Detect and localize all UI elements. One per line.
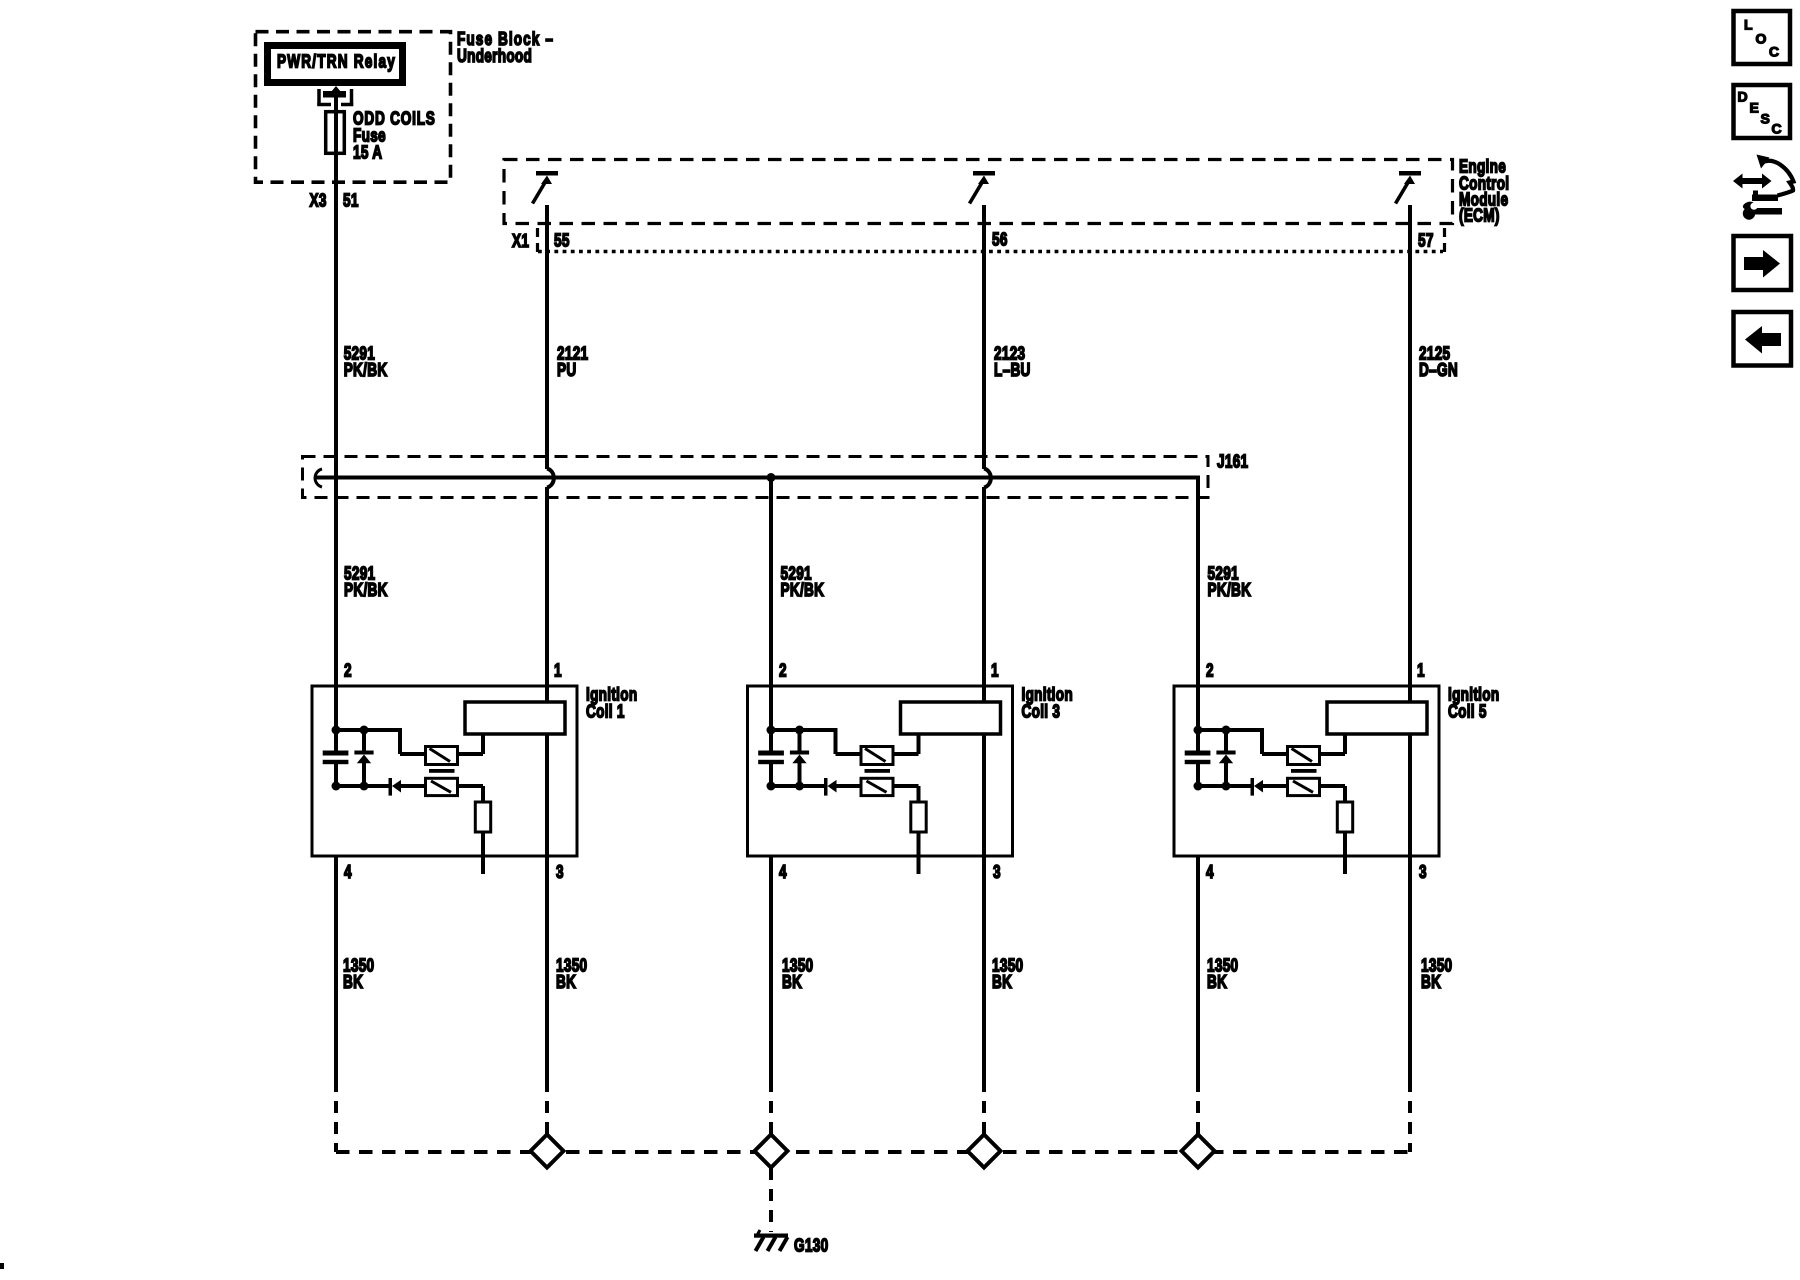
svg-text:L: L bbox=[1744, 17, 1753, 33]
coil 1 wire driver top to coil block bbox=[458, 752, 484, 756]
coil 5 junction dots bottom bbox=[1194, 782, 1203, 791]
svg-text:PK/BK: PK/BK bbox=[1208, 580, 1252, 601]
splice bus end hook bbox=[315, 469, 322, 487]
driver module middle bar coil 3 bbox=[865, 769, 891, 773]
connector X1 tick right bbox=[1443, 228, 1446, 252]
dashed wire coil1 pin4 to bus bbox=[334, 1080, 338, 1152]
wire 2123 L-BU hop to coil3 bbox=[982, 487, 986, 688]
forward arrow bbox=[1744, 250, 1780, 278]
wire 2121 PU hop to coil1 bbox=[545, 487, 549, 688]
svg-text:15 A: 15 A bbox=[353, 142, 382, 163]
icon box forward arrow bbox=[1734, 236, 1792, 290]
svg-text:1: 1 bbox=[554, 660, 562, 681]
svg-text:J161: J161 bbox=[1217, 451, 1248, 472]
dashed wire coil3 pin3 to splice bbox=[982, 1080, 986, 1137]
coil 1 secondary stub wire bbox=[481, 832, 485, 874]
svg-text:X1: X1 bbox=[512, 231, 529, 252]
svg-text:BK: BK bbox=[992, 972, 1012, 993]
coil 3 wire diode to driver bbox=[837, 784, 863, 788]
svg-text:X3: X3 bbox=[310, 190, 327, 211]
connector X1 dotted line bbox=[538, 250, 1443, 253]
wire 2123 L-BU pin56 to hop bbox=[982, 205, 986, 469]
coil 3 bend wire down to driver bbox=[834, 728, 838, 754]
ignition coil 5 box bbox=[1174, 686, 1439, 856]
wire 1350 BK coil1 pin3 solid bbox=[545, 856, 549, 1080]
zener diode coil 3 bbox=[790, 730, 809, 788]
svg-text:57: 57 bbox=[1418, 230, 1434, 251]
coil 5 bottom internal wire bbox=[1198, 784, 1252, 788]
coil 5 wire diode to driver bbox=[1263, 784, 1289, 788]
svg-text:2: 2 bbox=[1206, 660, 1214, 681]
pin labels 2 1 4 3 coil 1 bbox=[344, 660, 564, 882]
label ODD COILS Fuse 15 A bbox=[353, 108, 436, 163]
svg-text:PK/BK: PK/BK bbox=[344, 360, 388, 381]
svg-text:E: E bbox=[1750, 100, 1759, 116]
connector label X3 51 bbox=[310, 190, 359, 211]
wire J161 corner down to coil5 branch bbox=[1196, 478, 1200, 689]
wire 5291 PK/BK J161 to coil3 bbox=[769, 479, 773, 688]
splice diamond 1 bbox=[531, 1135, 564, 1168]
connector X1 tick left bbox=[536, 228, 539, 252]
dashed wire coil1 pin3 to splice bbox=[545, 1080, 549, 1137]
coil 3 top internal wire bbox=[771, 728, 838, 732]
svg-text:PK/BK: PK/BK bbox=[344, 580, 388, 601]
coil 1 wire diode to driver bbox=[401, 784, 427, 788]
svg-text:1: 1 bbox=[991, 660, 999, 681]
labels X1 55 56 57 bbox=[512, 229, 1434, 251]
fuse ODD COILS 15A bbox=[326, 112, 345, 154]
svg-text:56: 56 bbox=[992, 229, 1008, 250]
driver module top box coil 5 bbox=[1288, 747, 1320, 765]
svg-text:C: C bbox=[1769, 44, 1779, 60]
svg-text:4: 4 bbox=[779, 862, 787, 883]
pin labels 2 1 4 3 coil 5 bbox=[1206, 660, 1427, 882]
label 2123 L-BU bbox=[994, 343, 1031, 380]
wire 1350 BK coil5 pin4 solid bbox=[1196, 856, 1200, 1080]
resistor coil 5 bbox=[1337, 802, 1352, 832]
wire 1350 BK coil3 pin3 solid bbox=[982, 856, 986, 1080]
label Engine Control Module (ECM) bbox=[1459, 156, 1509, 226]
wire 2125 D-GN pin57 to coil5 bbox=[1408, 205, 1412, 688]
svg-text:Coil 3: Coil 3 bbox=[1022, 701, 1061, 722]
label Ignition Coil 3 bbox=[1022, 684, 1073, 722]
coil 5 pin1/pin3 wire below block bbox=[1408, 734, 1412, 856]
zener diode coil 5 bbox=[1216, 730, 1235, 788]
ECM output driver pin 55 bbox=[533, 171, 559, 204]
dashed wire splice to ground bbox=[769, 1168, 773, 1232]
wire 5291 PK/BK J161 to coil1 bbox=[334, 479, 338, 688]
dashed wire coil5 pin3 to bus bbox=[1408, 1080, 1412, 1152]
icon box LOC bbox=[1734, 11, 1791, 64]
wire 1350 BK coil3 pin4 solid bbox=[769, 856, 773, 1080]
ECM dashed box bbox=[504, 160, 1453, 224]
svg-text:BK: BK bbox=[556, 972, 576, 993]
labels 5291 PK/BK middle bbox=[344, 563, 1251, 600]
svg-text:O: O bbox=[1756, 30, 1767, 46]
driver module middle bar coil 5 bbox=[1291, 769, 1317, 773]
pin labels 2 1 4 3 coil 3 bbox=[779, 660, 1001, 882]
ECM output driver pin 57 bbox=[1396, 171, 1422, 204]
ECM output driver pin 56 bbox=[970, 171, 996, 204]
svg-text:BK: BK bbox=[782, 972, 802, 993]
svg-text:3: 3 bbox=[993, 862, 1001, 883]
coil 1 pin1 wire into box bbox=[545, 686, 549, 704]
wire hop over J161 bus at 55 bbox=[547, 469, 554, 488]
svg-text:1: 1 bbox=[1417, 660, 1425, 681]
coil 5 wire driver top to coil block bbox=[1320, 752, 1346, 756]
coil 5 primary block bbox=[1327, 702, 1427, 734]
coil 5 junction dots top bbox=[1194, 726, 1203, 735]
ignition coil 1 box bbox=[312, 686, 577, 856]
svg-text:BK: BK bbox=[1421, 972, 1441, 993]
splice diamond 3 bbox=[968, 1135, 1001, 1168]
labels 1350 BK bbox=[343, 955, 1452, 992]
wire fuse interior bbox=[334, 113, 338, 152]
label Fuse Block - Underhood bbox=[457, 29, 554, 67]
coil 3 bottom internal wire bbox=[771, 784, 826, 788]
dashed wire coil3 pin4 to splice bbox=[769, 1080, 773, 1137]
label 5291 PK/BK top bbox=[344, 343, 388, 380]
label Ignition Coil 5 bbox=[1448, 684, 1499, 722]
svg-text:4: 4 bbox=[344, 862, 352, 883]
letters DESC bbox=[1738, 89, 1782, 137]
coil 3 primary block bbox=[901, 702, 1001, 734]
coil 3 wire driver bottom to resistor bbox=[893, 784, 919, 788]
wire hop over J161 bus at 56 bbox=[984, 469, 991, 488]
svg-text:55: 55 bbox=[554, 230, 570, 251]
splice diamond 4 bbox=[1182, 1135, 1215, 1168]
svg-text:3: 3 bbox=[556, 862, 564, 883]
coil 1 bottom internal wire bbox=[336, 784, 390, 788]
diode coil 1 bbox=[389, 778, 402, 796]
icon vehicle with arrow and wrench bbox=[1733, 155, 1794, 220]
coil 1 junction dots top bbox=[332, 726, 341, 735]
coil 1 junction dots bottom bbox=[332, 782, 341, 791]
wire 2121 PU pin55 to hop bbox=[545, 205, 549, 469]
driver module middle bar coil 1 bbox=[429, 769, 455, 773]
coil 1 pin1/pin3 wire below block bbox=[545, 734, 549, 856]
resistor coil 3 bbox=[911, 802, 926, 832]
label 2125 D-GN bbox=[1419, 343, 1458, 380]
svg-text:4: 4 bbox=[1206, 862, 1214, 883]
svg-text:3: 3 bbox=[1419, 862, 1427, 883]
svg-text:(ECM): (ECM) bbox=[1459, 205, 1500, 226]
splice bus wire J161 bbox=[316, 476, 1200, 480]
driver module bottom box coil 3 bbox=[861, 778, 893, 795]
driver module top box coil 3 bbox=[861, 747, 893, 765]
svg-text:PK/BK: PK/BK bbox=[781, 580, 825, 601]
ignition coil 3 box bbox=[748, 686, 1013, 856]
coil 1 bend wire down to driver bbox=[398, 728, 402, 754]
diode coil 5 bbox=[1251, 778, 1264, 796]
svg-text:51: 51 bbox=[343, 190, 359, 211]
ground G130 bbox=[754, 1230, 788, 1251]
coil 5 wire driver bottom to resistor bbox=[1320, 784, 1346, 788]
wire 1350 BK coil1 pin4 solid bbox=[334, 856, 338, 1080]
svg-text:D–GN: D–GN bbox=[1419, 360, 1458, 381]
coil 5 secondary stub wire bbox=[1343, 832, 1347, 874]
svg-text:2: 2 bbox=[344, 660, 352, 681]
capacitor coil 3 bbox=[758, 732, 784, 785]
icon box DESC bbox=[1734, 85, 1791, 138]
coil 1 top internal wire bbox=[336, 728, 402, 732]
svg-text:D: D bbox=[1738, 89, 1748, 105]
coil 3 pin2 wire into box bbox=[769, 686, 773, 732]
diode coil 3 bbox=[824, 778, 837, 796]
svg-text:L–BU: L–BU bbox=[994, 360, 1031, 381]
zener diode coil 1 bbox=[354, 730, 373, 788]
svg-text:Coil 5: Coil 5 bbox=[1448, 701, 1487, 722]
dashed wire coil5 pin4 to splice bbox=[1196, 1080, 1200, 1137]
relay PWR/TRN Relay label box bbox=[268, 46, 403, 83]
driver module bottom box coil 1 bbox=[426, 778, 458, 795]
coil 1 primary block bbox=[465, 702, 565, 734]
coil 5 top internal wire bbox=[1198, 728, 1264, 732]
icon box back arrow bbox=[1734, 312, 1792, 366]
wire 1350 BK coil5 pin3 solid bbox=[1408, 856, 1412, 1080]
label Ignition Coil 1 bbox=[586, 684, 637, 722]
svg-text:BK: BK bbox=[343, 972, 363, 993]
svg-text:2: 2 bbox=[779, 660, 787, 681]
capacitor coil 1 bbox=[323, 732, 349, 785]
svg-text:C: C bbox=[1772, 121, 1782, 137]
coil 3 junction dots top bbox=[767, 726, 776, 735]
svg-text:PU: PU bbox=[557, 360, 576, 381]
resistor coil 1 bbox=[475, 802, 490, 832]
svg-text:G130: G130 bbox=[794, 1235, 828, 1256]
svg-text:BK: BK bbox=[1207, 972, 1227, 993]
coil 3 secondary stub wire bbox=[917, 832, 921, 874]
coil 3 junction dots bottom bbox=[767, 782, 776, 791]
splice J161 dashed box bbox=[303, 457, 1209, 498]
coil 1 wire driver bottom to resistor bbox=[458, 784, 484, 788]
svg-text:Underhood: Underhood bbox=[457, 46, 532, 67]
coil 5 bend wire down to driver bbox=[1260, 728, 1264, 754]
relay contact symbol bbox=[317, 86, 353, 106]
wire relay to fuse bbox=[334, 97, 338, 112]
wire 5291 PK/BK fuse to J161 bbox=[334, 205, 338, 479]
splice diamond 2 bbox=[755, 1135, 788, 1168]
dashed ground bus bbox=[336, 1150, 1410, 1154]
wire fuse to connector X3 bbox=[334, 152, 338, 205]
coil 1 pin2 wire into box bbox=[334, 686, 338, 732]
label 2121 PU bbox=[557, 343, 588, 380]
coil 3 pin1/pin3 wire below block bbox=[982, 734, 986, 856]
svg-text:S: S bbox=[1761, 111, 1770, 127]
junction dot J161 to coil3 bbox=[767, 473, 776, 482]
coil 3 wire driver top to coil block bbox=[893, 752, 919, 756]
coil 5 pin2 wire into box bbox=[1196, 686, 1200, 732]
coil 5 pin1 wire into box bbox=[1408, 686, 1412, 704]
coil 3 pin1 wire into box bbox=[982, 686, 986, 704]
driver module top box coil 1 bbox=[426, 747, 458, 765]
capacitor coil 5 bbox=[1185, 732, 1211, 785]
fuse block underhood dashed box bbox=[256, 32, 451, 183]
svg-text:PWR/TRN Relay: PWR/TRN Relay bbox=[277, 51, 396, 72]
back arrow bbox=[1745, 326, 1781, 354]
svg-text:Coil 1: Coil 1 bbox=[586, 701, 625, 722]
driver module bottom box coil 5 bbox=[1288, 778, 1320, 795]
letters LOC bbox=[1744, 17, 1779, 60]
stray mark bottom left edge bbox=[0, 1263, 4, 1269]
